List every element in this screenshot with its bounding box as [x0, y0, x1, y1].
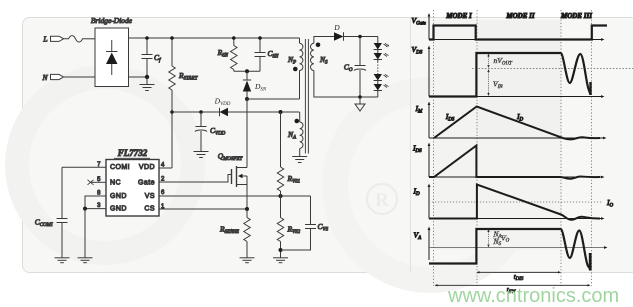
annotation Vin arrow	[487, 69, 503, 96]
diode D output	[333, 23, 343, 41]
LED D2	[374, 50, 382, 60]
svg-text:Gate: Gate	[138, 180, 155, 187]
label ID axis	[413, 187, 421, 198]
node junction CVDD top	[199, 110, 203, 114]
pin number 8	[97, 191, 101, 197]
resistor RSTART	[169, 38, 199, 168]
node junction RSN top	[232, 36, 236, 40]
label ID on IM	[516, 112, 524, 122]
ground CCOMI	[55, 258, 70, 263]
capacitor CCOMI	[35, 167, 68, 258]
pin number 6	[161, 190, 165, 196]
svg-text:MODE II: MODE II	[505, 12, 534, 20]
wire snubber bottom	[234, 70, 260, 72]
capacitor CVDD	[195, 112, 226, 151]
waveform ID curve	[429, 185, 600, 220]
annotation switching period arrow	[435, 284, 591, 295]
LED D4	[374, 81, 382, 98]
wire output top	[344, 36, 378, 38]
label VGate axis	[412, 16, 427, 27]
wire GND pin8	[85, 196, 106, 209]
svg-text:CS: CS	[144, 206, 155, 213]
pin number 2	[161, 177, 165, 183]
transistor QMOSFET	[218, 152, 247, 188]
wire drain vertical	[246, 99, 248, 168]
wire LED dotted continuation	[377, 60, 379, 75]
capacitor CSN snubber	[255, 38, 280, 71]
dashed level line nVout	[472, 68, 633, 70]
svg-text:www.cntronics.com: www.cntronics.com	[447, 285, 619, 307]
axis IDS	[428, 143, 605, 179]
LED D1	[374, 37, 382, 50]
wire bridge bottom output	[129, 76, 148, 78]
wire GND pin3	[85, 208, 106, 210]
label VDS axis	[412, 45, 423, 56]
svg-text:MODE III: MODE III	[560, 12, 592, 20]
pin name Gate	[138, 180, 155, 187]
annotation tDIS arrow	[477, 271, 562, 282]
wire Gate pin2	[159, 175, 232, 183]
node junction VS RVS1	[279, 194, 283, 198]
watermark cntronics	[447, 285, 619, 307]
node junction RSTART top	[170, 36, 174, 40]
wire MOSFET source down	[246, 185, 248, 210]
svg-text:Bridge-Diode: Bridge-Diode	[91, 16, 133, 25]
wire CS to source	[159, 208, 247, 210]
wire GND down	[84, 209, 86, 258]
waveform IM curve	[434, 107, 600, 140]
label Bridge-Diode	[91, 16, 133, 25]
wire L to bridge	[86, 38, 95, 40]
node junction CS source	[245, 207, 249, 211]
node L input terminal	[42, 35, 63, 44]
node junction Cf top	[145, 36, 149, 40]
pin number 7	[97, 162, 101, 168]
ground RSENSE	[240, 258, 255, 263]
ground NA	[292, 157, 307, 163]
ground output signal	[355, 97, 365, 111]
axis VA	[428, 227, 431, 261]
pin name GND8	[110, 193, 127, 200]
wire top rail bridge to transformer primary	[129, 37, 300, 39]
zero line VA	[429, 246, 608, 249]
wire VS pin6	[159, 195, 311, 197]
diode DVDD	[214, 97, 231, 117]
resistor RVS2	[277, 196, 300, 258]
wire N to bridge	[63, 76, 95, 78]
resistor RSENSE	[219, 209, 250, 258]
fuse F1	[63, 36, 86, 42]
svg-text:GND: GND	[110, 193, 127, 200]
node N input terminal	[41, 73, 63, 82]
ground CVDD	[194, 152, 209, 158]
mode boundary dotted lines	[434, 10, 592, 286]
transformer secondary winding NS	[311, 43, 329, 70]
pin name VDD	[139, 164, 155, 171]
wire VDD pin4	[159, 167, 172, 169]
pin NC no-connect stub	[88, 180, 107, 185]
waveform VA curve	[429, 229, 590, 271]
svg-text:GND: GND	[110, 206, 127, 213]
pin number 3	[97, 203, 101, 209]
diode inside bridge	[106, 40, 118, 75]
axis ID	[428, 184, 605, 220]
wire secondary bottom	[314, 71, 378, 98]
svg-text:D: D	[333, 23, 340, 32]
pin number 4	[161, 163, 165, 169]
label MODE III	[560, 12, 592, 20]
ground primary input	[140, 77, 155, 91]
axis VGate	[428, 13, 605, 41]
node junction snubber bottom	[245, 69, 249, 73]
node junction CSN top	[258, 36, 262, 40]
label IDS on IM	[445, 112, 455, 122]
LED D4 arrows	[384, 84, 389, 87]
capacitor Co	[344, 37, 366, 98]
svg-text:R: R	[375, 190, 389, 211]
resistor RSN snubber	[217, 38, 237, 71]
pin name NC	[110, 180, 121, 187]
node junction drain primary	[245, 97, 249, 101]
annotation NA/NS Vo arrow	[487, 229, 509, 248]
LED D3 arrows	[384, 74, 389, 77]
node junction Co top	[358, 35, 362, 39]
pin number 1	[161, 204, 165, 210]
node junction Co bottom	[358, 95, 362, 99]
axis VDS	[428, 46, 605, 98]
diode DSN	[243, 71, 267, 99]
svg-text:NC: NC	[110, 180, 121, 187]
svg-text:N: N	[41, 73, 48, 82]
node junction VDD rail left	[170, 110, 174, 114]
waveform VDS curve	[429, 53, 591, 97]
dotted level line IO	[429, 201, 602, 203]
bridge rectifier BD1 box	[95, 28, 129, 87]
wire secondary top	[314, 37, 334, 44]
svg-text:L: L	[42, 35, 47, 44]
svg-text:VS: VS	[145, 193, 155, 200]
svg-text:FL7732: FL7732	[117, 148, 148, 158]
wire VDD rail	[172, 111, 300, 113]
axis IM	[428, 102, 607, 140]
waveform VGate curve	[429, 26, 607, 40]
ground RVS2	[273, 258, 288, 263]
annotation nVout arrow	[487, 54, 513, 69]
transformer aux winding NA	[287, 112, 303, 156]
resistor RVS1	[277, 112, 300, 196]
capacitor Cf	[142, 38, 162, 77]
pin number 5	[97, 177, 101, 183]
wire COMI pin7	[62, 166, 106, 168]
capacitor CVS	[281, 196, 329, 250]
label IDS axis	[412, 144, 422, 155]
node phase dot NA	[295, 119, 300, 124]
wire primary bottom to drain	[247, 71, 300, 100]
pin name GND3	[110, 206, 127, 213]
waveform IDS curve	[429, 146, 600, 179]
transformer core	[305, 39, 308, 154]
node phase dot secondary	[316, 43, 321, 48]
label IM axis	[415, 104, 424, 115]
IC U1 FL7732 label	[114, 148, 150, 158]
LED D3	[374, 74, 382, 81]
node phase dot primary	[293, 67, 298, 72]
label MODE II	[505, 12, 534, 20]
ground IC	[78, 258, 93, 263]
IC U1 FL7732 box	[106, 160, 159, 217]
node junction GND pins	[83, 207, 87, 211]
transformer primary winding NP	[287, 38, 303, 71]
node junction Cf bottom	[145, 75, 149, 79]
svg-text:VDD: VDD	[139, 164, 155, 171]
svg-text:MODE I: MODE I	[445, 12, 472, 20]
LED D1 arrows	[384, 43, 389, 47]
label IO	[606, 198, 614, 208]
LED D2 arrows	[384, 53, 389, 56]
pin name COMI	[110, 164, 130, 171]
label VA axis	[414, 231, 423, 242]
pin name CS	[144, 206, 155, 213]
svg-text:COMI: COMI	[110, 164, 130, 171]
pin name VS	[145, 193, 155, 200]
node junction RVS1 top	[279, 110, 283, 114]
label MODE I	[445, 12, 472, 20]
node junction RVS2 CVS bottom	[279, 248, 283, 252]
